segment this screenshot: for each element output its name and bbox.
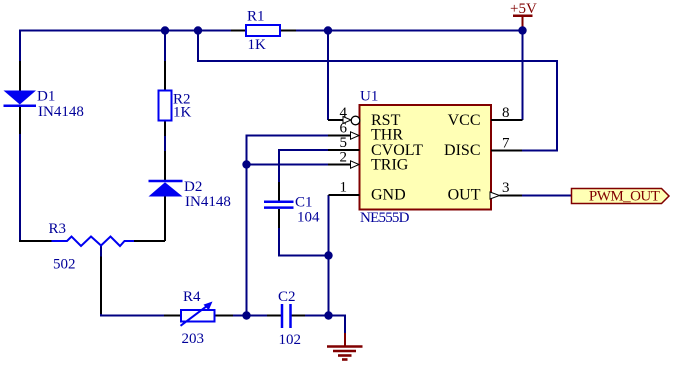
svg-text:4: 4 [340,105,348,121]
pin 7 DISC [444,136,522,160]
svg-text:TRIG: TRIG [371,157,409,174]
wire bottom rail left [100,313,164,316]
svg-text:1K: 1K [173,105,192,121]
node rail-R2 [161,26,169,34]
wire wiper stub [100,246,102,257]
svg-text:203: 203 [182,331,205,347]
wire THR link [247,136,329,165]
svg-text:R3: R3 [49,221,67,237]
net label PWM_OUT [572,189,670,205]
diode D1 [4,61,84,134]
capacitor C2 [267,289,305,348]
svg-text:DISC: DISC [444,142,480,159]
wire ground stem blue [344,315,346,334]
node rail-RST [324,26,332,34]
wire R2 branch riser [164,31,166,62]
node bottom-GND [324,311,332,319]
svg-text:102: 102 [279,332,302,348]
svg-text:8: 8 [502,105,510,121]
svg-text:R4: R4 [183,289,201,305]
ground [327,333,363,360]
svg-text:OUT: OUT [448,187,481,204]
wire CVOLT to C1 [279,150,328,182]
wire DISC net loop [198,31,557,151]
potentiometer R3 [19,221,134,314]
svg-text:GND: GND [371,187,406,204]
svg-text:THR: THR [371,127,403,144]
wire RST riser [327,31,329,121]
svg-text:IN4148: IN4148 [38,104,84,120]
pin 6 THR [328,121,403,144]
wire R2 to D2 [164,136,166,151]
pin 4 RST [328,105,401,129]
svg-text:1K: 1K [248,37,267,53]
svg-text:7: 7 [502,136,510,152]
wire R4 to junction [233,315,267,317]
node rail-5V [518,26,526,34]
svg-text:NE555D: NE555D [360,210,410,226]
diode D2 [134,151,231,241]
wire top-left rail [20,30,231,62]
wire left rail lower [19,134,21,241]
wire +5V rail [296,30,524,32]
svg-text:PWM_OUT: PWM_OUT [589,189,660,205]
resistor R1 [231,9,296,54]
wire VCC riser [522,31,524,121]
node rail-DISC [194,26,202,34]
svg-text:D2: D2 [184,179,202,195]
svg-text:U1: U1 [360,89,378,105]
pin 1 GND [329,180,406,204]
wire OUT to flag [522,195,572,197]
pin 8 VCC [448,105,523,129]
node C1-GND [324,251,332,259]
op-amp U1 NE555D body [360,89,492,227]
wire TRIG riser down [246,165,248,316]
wire GND pin riser [328,195,330,316]
svg-text:+5V: +5V [510,1,537,17]
power +5V [510,1,537,31]
svg-text:VCC: VCC [448,112,481,129]
svg-text:D1: D1 [37,89,55,105]
node bottom-TRIG [242,311,250,319]
pin 3 OUT [448,180,522,204]
svg-text:3: 3 [502,180,510,196]
svg-text:104: 104 [297,210,320,226]
resistor R2 [159,61,192,136]
pin 5 CVOLT [328,135,423,159]
svg-text:IN4148: IN4148 [185,194,231,210]
node junction dots [161,26,527,319]
svg-text:C2: C2 [278,289,296,305]
node THR-TRIG [242,160,250,168]
svg-text:2: 2 [340,150,348,166]
capacitor C1 [264,182,320,228]
wire C2 to ground [305,315,345,317]
rheostat R4 [164,289,233,347]
svg-text:502: 502 [53,257,76,273]
svg-text:R1: R1 [247,9,265,25]
svg-text:C1: C1 [295,195,313,211]
wire C1 bottom link [279,228,329,256]
wire TRIG link [247,164,329,166]
pin 2 TRIG [328,150,409,174]
svg-text:1: 1 [340,180,348,196]
